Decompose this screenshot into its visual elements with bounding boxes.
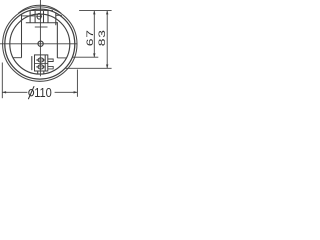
right inner plate vertical [56, 22, 58, 58]
svg-text:110: 110 [34, 85, 52, 100]
left inner plate foot [13, 57, 21, 59]
terminal block right tab lower [48, 66, 53, 69]
arrowhead 67 bottom [93, 53, 95, 57]
terminal block right tab upper [48, 59, 53, 62]
inner circle [10, 14, 70, 74]
arrowhead 83 top [106, 11, 108, 15]
dim extension line y57 [73, 56, 99, 58]
top spring arc [18, 5, 61, 13]
right bracket step horizontal [56, 14, 62, 16]
top extension line [79, 10, 112, 12]
arrowhead 67 top [93, 11, 95, 15]
terminal block left plate edge [31, 56, 33, 70]
dimension line 67 [93, 11, 95, 58]
bracket slot screw ellipse [37, 13, 41, 19]
terminal block inner right vertical [44, 55, 46, 71]
arrowhead 83 bottom [106, 65, 108, 69]
right bracket step vertical [60, 15, 62, 17]
vertical centerline [39, 0, 41, 76]
svg-text:67: 67 [85, 29, 95, 46]
terminal screw lower [38, 65, 44, 69]
terminal screw upper [38, 58, 44, 62]
svg-text:83: 83 [97, 29, 107, 46]
main body circle [5, 9, 75, 79]
dim text phi110 [28, 86, 34, 99]
bracket screw cross ticks [36, 15, 42, 17]
phi110 dim line right segment [55, 91, 78, 93]
terminal block outer box [35, 55, 48, 71]
left inner plate vertical [21, 14, 23, 58]
phi110 right extension line [76, 70, 78, 97]
phi110 left extension line [1, 63, 3, 99]
top bracket verticals [29, 11, 31, 23]
top bracket top edge [29, 10, 53, 12]
left bracket arm horizontal [22, 15, 35, 17]
outer rim circle (diameter 110 outline) [3, 7, 77, 81]
arrowhead phi110 right [74, 91, 78, 93]
bracket lower plate edge [35, 26, 48, 28]
horizontal centerline [0, 43, 77, 45]
terminal block lower tab [38, 71, 44, 74]
center hole circle [38, 41, 43, 46]
dimension line 83 [106, 11, 108, 69]
top bracket bottom chord [26, 22, 58, 24]
dim extension line y68 [66, 67, 112, 69]
right bracket tall vertical [55, 13, 57, 25]
arrowhead phi110 left [2, 91, 6, 93]
terminal block partition line [35, 62, 48, 64]
right inner plate foot [57, 57, 66, 59]
phi110 dim line left segment [2, 91, 27, 93]
